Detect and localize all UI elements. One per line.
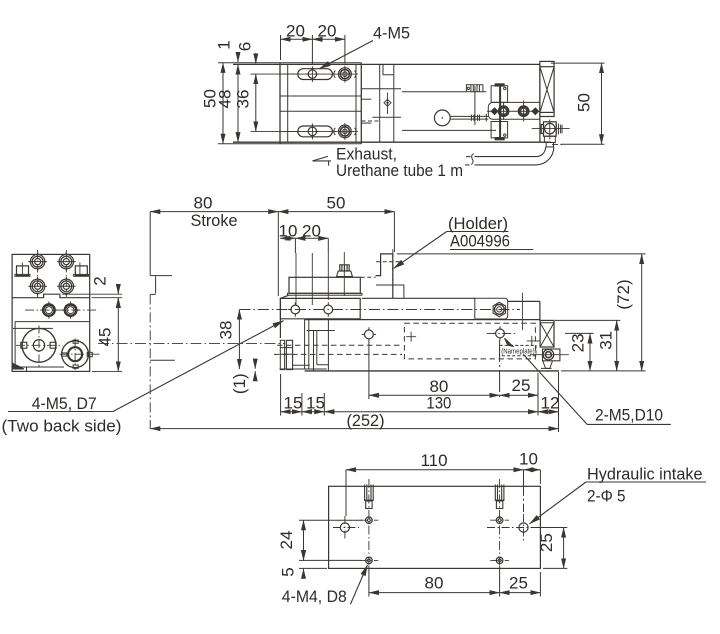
- svg-text:80: 80: [425, 574, 444, 593]
- dim 50 right line: [601, 63, 603, 144]
- end bushing circle inner: [68, 347, 82, 361]
- side wedge base: [541, 367, 552, 369]
- dim 20 20 ext line left: [280, 35, 282, 60]
- dim 20 20 ext line mid: [311, 35, 313, 64]
- dim 50 right ext bottom: [561, 143, 605, 145]
- bottom cl col right: [499, 479, 501, 570]
- end bushing circle outer: [62, 341, 89, 368]
- fitting nut lines: [556, 124, 562, 135]
- M5 ref line: [521, 293, 523, 331]
- exhaust tube outer: [475, 147, 546, 157]
- cross mark left: [406, 332, 416, 342]
- side X-block cross: [540, 323, 554, 347]
- carriage bolt right ticks: [321, 302, 335, 316]
- slot top-left obround: [298, 69, 333, 80]
- leader 4-M5: [320, 41, 374, 69]
- rail guide lower right: [372, 116, 401, 118]
- holder hidden dash: [376, 261, 402, 263]
- carriage guide line upper: [281, 95, 362, 97]
- end bolt r1c2: [57, 252, 76, 271]
- carriage bolt left: [291, 305, 300, 314]
- svg-text:50: 50: [575, 93, 594, 112]
- dim 15 15 ext lines: [281, 374, 325, 416]
- stroke phantom line lower: [150, 359, 175, 361]
- bolt pair vertical cl B: [523, 101, 525, 122]
- holder underline 2: [450, 249, 533, 251]
- intake leader underline: [586, 481, 706, 483]
- dim 80 stroke line: [150, 211, 278, 213]
- center line bolt col 1 top: [311, 66, 313, 82]
- table bolt head: [337, 271, 353, 277]
- washer bolt bottom arcs: [334, 128, 356, 135]
- side bolt square: [543, 349, 560, 361]
- dim 72 ext top: [397, 253, 646, 255]
- dim (1) arrow bottom: [254, 371, 256, 378]
- top view rail bottom edge: [233, 141, 551, 143]
- svg-text:31: 31: [597, 331, 616, 350]
- dowel pin left tip: [366, 501, 372, 509]
- dowel pin right tip: [496, 501, 502, 509]
- svg-text:12: 12: [541, 394, 560, 413]
- bottom plate outline: [329, 486, 541, 568]
- carriage inner right line: [355, 64, 357, 142]
- side cylinder center line: [98, 342, 285, 344]
- dim 2 ext bottom: [92, 297, 123, 299]
- nameplate arrow: [505, 338, 514, 346]
- dim 80 btm line: [369, 592, 500, 594]
- dim 25 mid line: [500, 394, 538, 396]
- dim 252 line: [150, 428, 558, 430]
- svg-text:25: 25: [512, 376, 531, 395]
- side end bolt inner: [545, 352, 551, 358]
- bolt shaft: [499, 86, 501, 138]
- end bolt r3c1: [40, 302, 57, 319]
- svg-text:(Holder): (Holder): [448, 214, 508, 233]
- end bore tab left: [21, 342, 27, 348]
- hex bolt: [493, 302, 505, 316]
- washer bolt top row outer: [339, 68, 352, 81]
- M4 hole top-right inner: [498, 519, 501, 522]
- bolt M5 top-left ticks: [306, 68, 318, 81]
- dim 23 line: [589, 333, 591, 371]
- rail bottom edge: [305, 370, 559, 372]
- center line bottom bolt row: [283, 130, 358, 132]
- end tab left base: [15, 274, 30, 276]
- end tab left cl: [21, 263, 23, 277]
- dim 24 ext top: [299, 519, 362, 521]
- exhaust leader: [313, 156, 332, 165]
- dim ext right 558: [558, 372, 560, 432]
- bolt pair vertical cl A: [503, 103, 505, 120]
- lever arm joint ticks: [471, 115, 479, 121]
- svg-text:20: 20: [302, 222, 321, 241]
- end cl row3: [25, 309, 99, 311]
- lever circle dot: [442, 117, 444, 119]
- rail bottom thin line: [280, 368, 327, 370]
- rail guide upper right: [362, 88, 402, 90]
- guide channel upper line: [402, 91, 486, 93]
- svg-text:(Nameplate): (Nameplate): [501, 348, 535, 355]
- end tab left: [17, 266, 29, 276]
- svg-text:(Two back side): (Two back side): [2, 417, 122, 436]
- M4 hole bottom-left inner: [368, 559, 371, 562]
- svg-text:4-M4, D8: 4-M4, D8: [282, 587, 347, 606]
- rail bolt mid: [365, 330, 374, 339]
- M4 hole top-left: [366, 517, 373, 524]
- dim 80 mid ext left: [368, 341, 370, 399]
- svg-text:23: 23: [568, 333, 587, 352]
- stroke phantom center line: [149, 294, 151, 420]
- svg-text:15: 15: [306, 394, 325, 413]
- dim 10 line: [280, 237, 295, 239]
- carriage left edge: [279, 63, 281, 144]
- rail bolt right cl: [487, 332, 518, 334]
- carriage stub lower: [361, 122, 371, 124]
- carriage bolt right: [324, 305, 333, 314]
- carriage inner left line: [287, 64, 289, 142]
- svg-text:50: 50: [327, 194, 346, 213]
- dim 20 first line: [281, 38, 313, 40]
- end view outline: [12, 254, 90, 371]
- ref hole left: [340, 523, 349, 532]
- dim 45 line: [117, 298, 119, 372]
- rod coupler lines: [280, 348, 292, 355]
- svg-text:2-Φ 5: 2-Φ 5: [587, 487, 626, 506]
- carriage bolt left ticks: [288, 302, 302, 316]
- dim 80 btm ext left: [368, 566, 370, 597]
- dim 10 20 mid ext: [294, 238, 296, 253]
- svg-text:Stroke: Stroke: [191, 211, 238, 230]
- dim 1 arrow: [237, 52, 239, 62]
- diamond mark right: [532, 108, 539, 115]
- port diamond: [384, 99, 391, 106]
- end block right edge: [539, 64, 541, 142]
- X-block bottom cap line: [540, 111, 554, 113]
- end bolt r1c1: [28, 252, 47, 271]
- bolt pair center line: [487, 110, 540, 112]
- dim 10 20 right ext: [327, 238, 329, 252]
- svg-text:24: 24: [277, 531, 296, 550]
- svg-text:20: 20: [318, 21, 337, 40]
- bottom cl intake vertical: [523, 514, 525, 541]
- clamp block top hole: [504, 87, 506, 89]
- carriage body left edge: [279, 298, 281, 338]
- clamp block bottom hole: [504, 134, 506, 136]
- dim 5 ext bottom: [299, 567, 327, 569]
- bottom cl row mid left: [333, 527, 359, 529]
- rail vertical line b: [393, 64, 395, 142]
- dim 2 arrow bottom: [117, 298, 119, 308]
- piston rod lines: [293, 364, 310, 366]
- dim 80 mid line: [369, 394, 500, 396]
- svg-text:25: 25: [509, 574, 528, 593]
- svg-text:6: 6: [236, 42, 255, 51]
- dim 20 second line: [312, 38, 345, 40]
- table ext verticals: [296, 252, 344, 305]
- table base plate: [288, 293, 362, 295]
- stroke phantom line bottom: [149, 420, 151, 429]
- hidden rod line lower: [274, 353, 402, 355]
- svg-text:2-M5,D10: 2-M5,D10: [595, 406, 663, 425]
- X-block top cap line: [540, 66, 554, 68]
- M4 hole top-right: [496, 517, 503, 524]
- bolt M5 top-left circle: [308, 70, 316, 78]
- dim 110 ext left: [345, 470, 347, 516]
- bottom cl row bottom short: [360, 559, 510, 561]
- dim 50 right ext top: [551, 62, 605, 64]
- svg-text:Hydraulic intake: Hydraulic intake: [587, 465, 703, 484]
- lever arm: [450, 116, 488, 119]
- svg-text:(252): (252): [347, 411, 385, 430]
- dim 15 second line: [302, 411, 324, 413]
- dim 10 intake ext: [523, 470, 525, 512]
- svg-text:130: 130: [426, 394, 451, 413]
- dim 45 ext bottom: [92, 370, 122, 372]
- dim 50 top line: [278, 211, 394, 213]
- end bolt r2c2: [57, 277, 76, 296]
- carriage body: [280, 298, 360, 318]
- dim 2 arrow top: [117, 284, 119, 294]
- side end bolt outer: [543, 349, 554, 360]
- top view table top edge: [218, 62, 361, 64]
- svg-text:15: 15: [284, 394, 303, 413]
- table block: [289, 277, 360, 293]
- end bushing tab top: [73, 340, 78, 343]
- guide channel lower line: [402, 129, 496, 131]
- dim ext right 538: [537, 373, 539, 416]
- M4 hole bottom-right: [496, 557, 503, 564]
- dim 24 line: [303, 520, 305, 560]
- end bottom strip: [12, 366, 64, 368]
- dim 20 line: [295, 237, 328, 239]
- rail bolt mid ticks: [362, 327, 376, 341]
- lower nut stem: [546, 143, 553, 147]
- leader 2-M5 diagonal: [523, 354, 587, 424]
- diamond mark left: [491, 108, 498, 115]
- dim 25 right ext top: [532, 527, 567, 529]
- svg-text:4-M5, D7: 4-M5, D7: [32, 394, 97, 413]
- lever circle: [434, 110, 450, 126]
- end bushing tab left: [62, 353, 67, 356]
- leader 4-M5 D7 underline: [8, 411, 113, 413]
- end bolt r3c2: [62, 302, 79, 319]
- end tab right cl: [79, 263, 81, 277]
- end view left inner wall: [14, 322, 16, 367]
- side end bolt cl: [530, 354, 569, 356]
- leader 4-M5 D7 line: [113, 321, 284, 412]
- M4 hole top-left inner: [368, 519, 371, 522]
- carriage stub upper: [361, 98, 371, 100]
- end bore tab right: [50, 342, 56, 348]
- dim 25 right line: [563, 528, 565, 569]
- dim 72 ext bottom: [561, 370, 646, 372]
- svg-text:36: 36: [234, 90, 253, 109]
- dim 110 line: [346, 469, 524, 471]
- stroke phantom line upper: [150, 212, 172, 295]
- nameplate arrow line: [506, 339, 513, 346]
- top view table bottom edge: [218, 143, 361, 145]
- dim 24 ext bottom: [299, 559, 362, 561]
- holder step lines: [376, 285, 404, 298]
- dim 23 ext top: [565, 332, 594, 334]
- hex bolt circle: [494, 305, 504, 315]
- bolt A ring: [499, 107, 508, 116]
- washer bolt bottom row outer: [339, 125, 352, 138]
- hidden dash under rail: [362, 120, 381, 122]
- fitting tail center line: [552, 144, 563, 146]
- hidden rod line upper: [277, 344, 402, 346]
- svg-text:25: 25: [537, 533, 556, 552]
- fitting circle: [545, 123, 555, 133]
- M4 hole bottom-left: [366, 557, 373, 564]
- fitting horizontal center line: [532, 127, 570, 129]
- center line bolt col 1 bottom: [311, 124, 313, 140]
- stroke dashed rectangle: [404, 323, 535, 359]
- dim 25 right ext bottom: [543, 567, 567, 569]
- pivot center line: [474, 86, 476, 125]
- washer bolt bottom row mid: [340, 127, 349, 136]
- hex bolt boss: [475, 298, 508, 319]
- end big bore inner: [33, 340, 44, 351]
- svg-text:38: 38: [216, 321, 235, 340]
- end cl bushing vertical: [74, 339, 76, 371]
- center line bolt col 2 bottom: [344, 123, 346, 140]
- dim 72 line: [641, 254, 643, 371]
- dowel pin left: [365, 485, 374, 502]
- end cl bore horizontal: [16, 344, 63, 346]
- holder center line: [392, 249, 394, 281]
- svg-text:4-M5: 4-M5: [373, 24, 410, 43]
- fitting left tab: [541, 125, 543, 134]
- slot bottom-left obround: [298, 126, 333, 137]
- bolt M5 bottom-left ticks: [306, 125, 318, 138]
- dim 12 line: [538, 411, 559, 413]
- bolt row ext line bottom: [251, 130, 301, 132]
- rail notch: [383, 64, 394, 74]
- dowel pin right: [495, 485, 504, 502]
- bolt B inner: [521, 108, 527, 114]
- end corner tick: [26, 367, 28, 371]
- svg-text:(1): (1): [230, 373, 249, 394]
- top view rail top edge: [233, 63, 540, 65]
- tube stub upper: [466, 156, 471, 158]
- pivot bracket hole: [467, 87, 469, 89]
- X-block cross: [540, 67, 554, 113]
- rod coupler 1: [280, 340, 284, 369]
- port diamond dot: [386, 102, 388, 104]
- bottom cl ref vertical: [344, 516, 346, 539]
- svg-text:5: 5: [279, 567, 298, 576]
- clamp block bottom: [491, 122, 508, 138]
- bottom cl row mid right: [487, 527, 542, 529]
- clamp block top: [491, 86, 508, 103]
- table bolt head lines: [340, 265, 349, 271]
- rail bolt right: [496, 329, 505, 338]
- dim 5 arrow bottom: [303, 569, 305, 577]
- end bushing tab bottom: [73, 365, 78, 368]
- leader 4-M4: [350, 565, 367, 604]
- lower rail top edge: [305, 319, 540, 321]
- dim 15 first line: [281, 411, 302, 413]
- bolt M5 bottom-left circle: [308, 127, 316, 135]
- cross mark right: [527, 336, 540, 346]
- dim 31 line: [616, 320, 618, 371]
- dim 10 20 ext left: [277, 212, 279, 296]
- nameplate box: [500, 345, 537, 355]
- lower nut: [544, 136, 555, 142]
- cylinder head block: [307, 320, 335, 371]
- dim 48 line: [237, 64, 239, 142]
- dim 6 arrow: [255, 53, 257, 64]
- clevis edge: [485, 114, 487, 122]
- M4 hole bottom-right inner: [498, 559, 501, 562]
- bolt B ring: [519, 107, 528, 116]
- bottom cl col left: [368, 479, 370, 570]
- end bushing tab right: [87, 352, 92, 356]
- dim 36 line: [255, 74, 257, 131]
- washer bolt top arcs: [334, 71, 356, 78]
- svg-text:48: 48: [216, 90, 235, 109]
- svg-text:1: 1: [215, 40, 234, 49]
- carriage guide line lower: [281, 110, 362, 112]
- bolt row ext line top: [251, 73, 301, 75]
- washer bolt top row mid: [340, 70, 349, 79]
- holder underline 1: [447, 231, 509, 233]
- dim 31 ext top: [555, 319, 620, 321]
- bracket plate: [488, 102, 540, 119]
- fitting vertical center line: [549, 120, 551, 140]
- clamp block top cap: [495, 84, 504, 86]
- end tab right base: [74, 274, 89, 276]
- tube stub lower: [465, 164, 470, 166]
- dim 2 ext top: [62, 293, 122, 295]
- hex bolt inner: [497, 307, 502, 312]
- svg-text:A004996: A004996: [450, 232, 510, 251]
- end big bore circle: [22, 328, 56, 362]
- end cl bore vertical: [38, 326, 40, 367]
- end lower block top line: [13, 322, 90, 329]
- end tab right: [75, 266, 87, 276]
- end cl col1: [37, 250, 39, 297]
- svg-text:2: 2: [91, 276, 110, 285]
- svg-text:10: 10: [279, 222, 298, 241]
- dim 130 line: [324, 411, 538, 413]
- dim 80 mid ext right: [499, 340, 501, 399]
- X-block outline: [540, 61, 554, 116]
- washer bolt top row inner: [343, 72, 347, 76]
- holder bracket: [376, 254, 393, 298]
- dim 10 btm ext: [539, 470, 541, 484]
- end interface line with tongue: [12, 294, 90, 298]
- bolt A inner: [501, 108, 507, 114]
- pivot top bracket: [466, 85, 483, 92]
- clamp block bottom cap: [495, 138, 504, 140]
- dim 80 btm ext right: [499, 566, 501, 597]
- dim 25 btm line: [500, 592, 541, 594]
- exhaust tube inner: [475, 147, 554, 165]
- svg-text:80: 80: [194, 194, 213, 213]
- svg-text:(72): (72): [614, 279, 633, 309]
- side wedge: [543, 361, 553, 369]
- carriage chamfer: [280, 295, 288, 298]
- svg-text:110: 110: [420, 451, 447, 470]
- port center line: [387, 93, 389, 115]
- end bolt r2c1: [28, 277, 47, 296]
- fitting body: [544, 122, 557, 136]
- head flange verticals: [305, 319, 309, 369]
- table hidden edge dashes: [361, 276, 376, 278]
- dim (1) arrow top: [254, 361, 256, 369]
